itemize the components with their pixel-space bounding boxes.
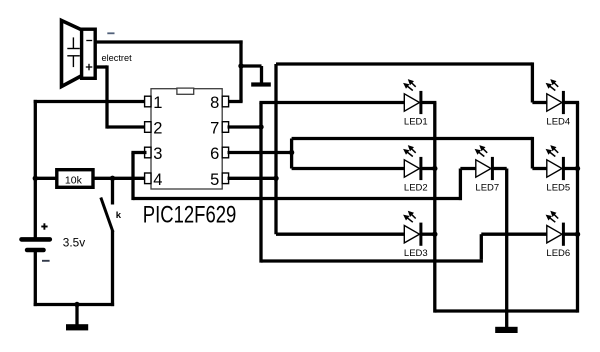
svg-text:3: 3 <box>153 145 162 163</box>
pin 4 tab <box>145 173 151 184</box>
electret microphone capacitor mark <box>72 37 74 48</box>
wire x107 to pin2 <box>107 125 147 128</box>
battery BT1 negative plate <box>27 248 43 253</box>
wire pin3 left <box>131 151 146 154</box>
pin 5 tab <box>222 173 228 184</box>
wire vertical x435 cathode chain <box>433 103 436 313</box>
svg-text:7: 7 <box>210 120 219 138</box>
wire mic- to node <box>95 40 242 43</box>
svg-text:4: 4 <box>153 171 162 189</box>
wire x532 down to LED5 row <box>531 137 534 169</box>
wire mic+ down x107 <box>105 65 108 128</box>
wire LED6 cathode lead <box>564 233 577 236</box>
pin 2 tab <box>145 122 151 133</box>
svg-text:LED2: LED2 <box>404 182 428 193</box>
battery plus label <box>41 226 47 228</box>
junction pin7/x261 <box>258 124 263 129</box>
switch k upper stub <box>111 178 114 204</box>
LED LED6 symbol <box>546 211 564 246</box>
svg-text:k: k <box>116 210 122 221</box>
wire VDD vertical x35 <box>34 100 37 240</box>
wire GP2 rail y64 <box>276 62 532 65</box>
wire vertical x261 (GP0 net) <box>259 103 262 263</box>
LED LED1 symbol <box>403 79 421 114</box>
wire vertical x276 (GP2 net) <box>274 64 277 234</box>
wire LED7 cathode lead <box>492 167 507 170</box>
wire vertical x481 up to LED6 <box>480 234 483 259</box>
resistor R1 10k body <box>57 170 93 188</box>
junction pin5/x276 <box>273 176 278 181</box>
pin 7 tab <box>222 122 228 133</box>
ground (bottom left) <box>66 324 88 330</box>
wire LED7 anode lead <box>460 167 476 170</box>
wire vertical x506 LED7 cathode to ground <box>505 169 508 328</box>
wire LED1 cathode lead <box>420 101 436 104</box>
mic body minus mark <box>86 40 92 42</box>
wire GP1 rail y138 <box>292 137 533 140</box>
wire LED4 cathode lead <box>564 101 579 104</box>
wire battery- down <box>34 252 37 306</box>
op IC U1 PIC12F629 body <box>151 89 222 189</box>
wire bottom left rail <box>34 303 114 306</box>
wire x532 down to LED4 row <box>531 62 534 102</box>
LED LED3 symbol <box>403 211 421 246</box>
battery minus label <box>42 260 50 262</box>
wire vertical x292 (GP1 net) <box>290 139 293 169</box>
LED LED5 symbol <box>546 145 564 180</box>
junction resistor/switch/pin4 <box>110 176 115 181</box>
junction VDD/resistor <box>33 176 38 181</box>
pin 3 tab <box>145 147 151 158</box>
junction LED5 cathode/x577 <box>575 166 580 171</box>
wire bottom ground rail y311 <box>435 309 578 312</box>
wire resistor right lead to pin4 <box>93 177 147 180</box>
svg-text:6: 6 <box>210 145 219 163</box>
junction mic-/ground/pin8 <box>238 63 243 68</box>
wire LED5 anode lead <box>532 167 547 170</box>
wire LED6 anode row <box>481 233 547 236</box>
LED LED7 symbol <box>475 145 493 180</box>
ground (top, VSS) <box>251 82 271 86</box>
LED LED4 symbol <box>546 79 564 114</box>
wire LED3 anode row <box>276 233 404 236</box>
wire LED5 cathode lead <box>564 167 577 170</box>
svg-text:LED4: LED4 <box>546 116 570 127</box>
pin 6 tab <box>222 147 228 158</box>
wire LED3 cathode lead <box>420 233 435 236</box>
wire pin5 to x276 <box>228 177 277 180</box>
wire ground stub (bottom left) <box>75 305 78 325</box>
mic body plus mark <box>86 66 93 68</box>
wire vertical x460 up to LED7 <box>459 169 462 201</box>
svg-text:LED5: LED5 <box>546 182 570 193</box>
wire pin7 to x261 <box>228 125 262 128</box>
svg-text:LED6: LED6 <box>546 248 570 259</box>
svg-text:LED1: LED1 <box>404 116 428 127</box>
svg-text:1: 1 <box>153 94 162 112</box>
junction bottom/ground <box>74 302 79 307</box>
svg-text:8: 8 <box>210 94 219 112</box>
wire LED4 anode lead <box>532 101 547 104</box>
svg-text:10k: 10k <box>65 174 83 186</box>
wire LED2 anode row <box>292 167 405 170</box>
wire resistor left lead <box>35 177 57 180</box>
LED LED2 symbol <box>403 145 421 180</box>
junction LED6 cathode/x577 <box>575 232 580 237</box>
mic negative terminal label <box>107 32 114 34</box>
wire vertical x577 cathode chain <box>576 103 579 313</box>
wire pin1 row <box>34 100 147 103</box>
switch k lower wire <box>111 231 114 307</box>
svg-text:electret: electret <box>102 53 133 63</box>
wire GP4 rail y198 <box>133 197 462 200</box>
svg-text:LED3: LED3 <box>404 248 428 259</box>
wire pin6 to x292 <box>228 151 294 154</box>
svg-text:LED7: LED7 <box>475 182 499 193</box>
pin 1 tab <box>145 96 151 107</box>
IC notch <box>177 88 194 94</box>
wire LED1 anode row <box>259 101 404 104</box>
wire LED2 cathode lead <box>420 167 435 170</box>
svg-text:5: 5 <box>210 171 219 189</box>
wire GP0 rail y261 <box>261 259 483 262</box>
battery BT1 positive plate <box>22 237 50 242</box>
wire mic+ right <box>95 65 107 68</box>
electret microphone body <box>82 29 96 78</box>
wire pin8 to x241 <box>228 100 243 103</box>
junction pin6/x292 <box>289 150 294 155</box>
wire vertical x133 (GP4 net) <box>131 153 134 201</box>
junction LED2 cathode/x435 <box>432 166 437 171</box>
switch k blade <box>101 198 113 233</box>
wire junction to top ground <box>241 64 262 67</box>
junction LED3 cathode/x435 <box>432 232 437 237</box>
svg-text:2: 2 <box>153 120 162 138</box>
svg-text:PIC12F629: PIC12F629 <box>143 202 237 229</box>
pin 8 tab <box>222 96 228 107</box>
electret microphone MIC1 horn <box>62 21 83 87</box>
svg-text:3.5v: 3.5v <box>63 235 85 249</box>
wire vertical x241 mic- down to pin8 <box>239 40 242 102</box>
ground (bottom right) <box>495 327 517 333</box>
